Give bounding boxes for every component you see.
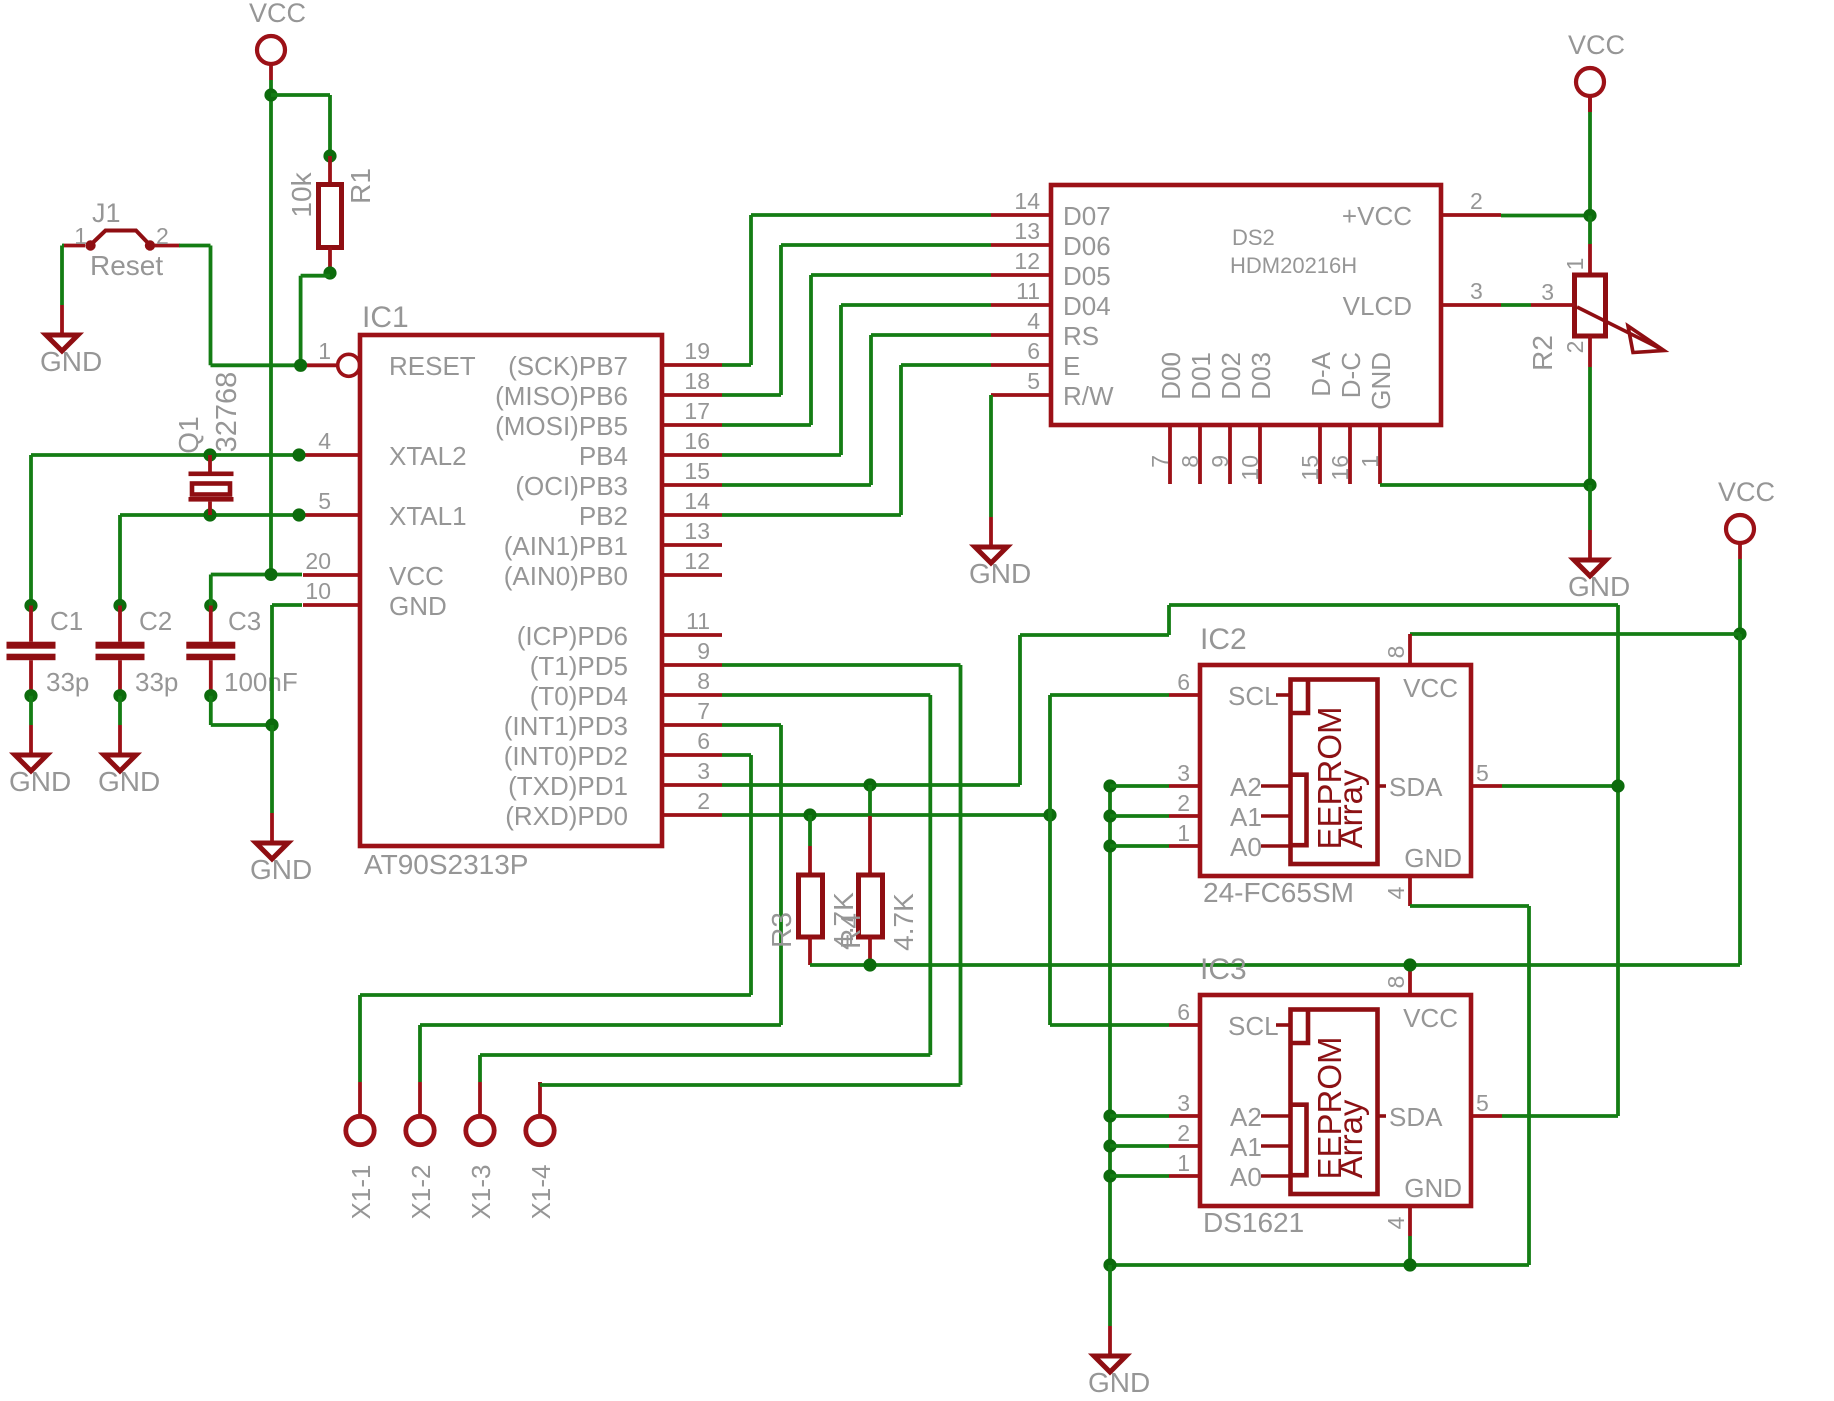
svg-text:D07: D07	[1063, 201, 1111, 231]
wire J1 pin2 to RESET node	[179, 246, 301, 366]
pin IC2.5 SDA	[1389, 760, 1502, 802]
junction dot R2 bottom/LCD gnd	[1583, 478, 1596, 491]
label IC3 value DS1621	[1203, 1207, 1304, 1238]
svg-text:2: 2	[1177, 1120, 1190, 1146]
svg-text:C2: C2	[139, 606, 172, 636]
svg-text:13: 13	[1014, 218, 1040, 244]
pin IC3.2 A1	[1169, 1120, 1262, 1162]
junction dot crystal top	[203, 448, 216, 461]
EEPROM array symbol (IC3)	[1261, 1010, 1386, 1195]
wire IC3 GND join	[1408, 1236, 1412, 1265]
jumper J1	[63, 198, 180, 281]
wire net X1-4 (T1/PD5)	[540, 665, 961, 1085]
power symbol VCC (top left)	[249, 0, 306, 80]
svg-text:GND: GND	[9, 766, 71, 797]
svg-text:5: 5	[1476, 760, 1489, 786]
pin IC1.13 (AIN1)PB1	[504, 518, 722, 561]
svg-text:9: 9	[697, 638, 710, 664]
wire to ground (R2)	[1588, 485, 1592, 530]
svg-text:(T1)PD5: (T1)PD5	[530, 651, 628, 681]
wire net X1-1 (INT0/PD2)	[360, 755, 751, 995]
junction dot A-bus y=786	[1103, 779, 1116, 792]
svg-text:6: 6	[697, 728, 710, 754]
svg-text:D03: D03	[1246, 352, 1276, 400]
svg-text:16: 16	[684, 428, 710, 454]
wire net D06 (IC1 to LCD)	[722, 245, 991, 395]
svg-text:9: 9	[1207, 455, 1233, 468]
svg-text:8: 8	[1383, 976, 1409, 989]
pin IC2.6 SCL	[1169, 669, 1279, 711]
svg-text:D02: D02	[1216, 352, 1246, 400]
label IC2 value 24-FC65SM	[1203, 877, 1354, 908]
wire XTAL2 net	[31, 455, 299, 606]
ground (R/W)	[969, 517, 1031, 589]
svg-text:7: 7	[1147, 455, 1173, 468]
svg-text:HDM20216H: HDM20216H	[1230, 253, 1357, 278]
svg-text:33p: 33p	[46, 667, 89, 697]
svg-text:(AIN1)PB1: (AIN1)PB1	[504, 531, 628, 561]
IC IC3 box	[1200, 995, 1471, 1206]
pin IC1.17 (MOSI)PB5	[495, 398, 722, 441]
ground (C1)	[9, 725, 71, 797]
svg-text:2: 2	[697, 788, 710, 814]
wire ground rail to GND symbol	[1108, 1265, 1112, 1326]
svg-text:D06: D06	[1063, 231, 1111, 261]
svg-text:Q1: Q1	[173, 416, 204, 453]
pad X1-3	[466, 1055, 496, 1219]
wire VCC rail (pull-ups, IC VCC)	[810, 963, 1740, 967]
ground (C2)	[98, 725, 160, 797]
svg-text:GND: GND	[1088, 1367, 1150, 1398]
svg-text:24-FC65SM: 24-FC65SM	[1203, 877, 1354, 908]
svg-text:AT90S2313P: AT90S2313P	[364, 849, 529, 880]
svg-text:VCC: VCC	[249, 0, 306, 28]
junction dot A-bus y=1176	[1103, 1169, 1116, 1182]
junction dot VCC at IC3 pin8	[1403, 958, 1416, 971]
svg-text:10: 10	[305, 578, 331, 604]
junction dot at IC1 pin 4	[292, 448, 305, 461]
pin IC3.3 A2	[1169, 1090, 1262, 1132]
svg-text:SDA: SDA	[1389, 1102, 1443, 1132]
svg-text:RS: RS	[1063, 321, 1099, 351]
svg-text:J1: J1	[92, 198, 121, 228]
pin DS2.3 VLCD	[1343, 278, 1501, 321]
junction dot VCC/R1 branch	[264, 88, 277, 101]
pin IC1.8 (T0)PD4	[530, 668, 722, 711]
svg-text:(SCK)PB7: (SCK)PB7	[508, 351, 628, 381]
pin DS2.7 D00	[1147, 352, 1186, 484]
wire XTAL1 net	[120, 515, 299, 606]
svg-text:8: 8	[697, 668, 710, 694]
svg-text:14: 14	[684, 488, 710, 514]
svg-text:SCL: SCL	[1228, 681, 1279, 711]
svg-text:7: 7	[697, 698, 710, 724]
svg-text:X1-2: X1-2	[406, 1165, 436, 1220]
svg-text:2: 2	[1562, 341, 1588, 354]
svg-text:GND: GND	[1366, 352, 1396, 410]
svg-text:Array: Array	[1332, 769, 1369, 848]
pin IC1.10 GND	[303, 578, 447, 621]
pin DS2.15 D-A	[1297, 351, 1336, 484]
svg-text:5: 5	[1027, 368, 1040, 394]
pin IC2.2 A1	[1169, 790, 1262, 832]
pad X1-1	[346, 995, 376, 1219]
junction dot A-bus y=1146	[1103, 1139, 1116, 1152]
svg-text:14: 14	[1014, 188, 1040, 214]
wire A-pin branch y=816	[1110, 814, 1169, 818]
svg-text:3: 3	[1541, 279, 1554, 305]
svg-text:1: 1	[1357, 455, 1383, 468]
svg-text:(TXD)PD1: (TXD)PD1	[508, 771, 628, 801]
svg-text:GND: GND	[40, 346, 102, 377]
junction dot VCC / pin20 / C3	[265, 568, 278, 581]
resistor R3 4.7K	[766, 815, 859, 965]
wire R1 bottom to RESET node	[301, 276, 330, 366]
svg-text:2: 2	[1177, 790, 1190, 816]
svg-text:3: 3	[697, 758, 710, 784]
svg-text:20: 20	[305, 548, 331, 574]
wire C2 to ground	[118, 696, 122, 725]
wire SCL to IC3	[1050, 1023, 1169, 1027]
svg-text:2: 2	[156, 223, 169, 249]
svg-text:VCC: VCC	[1568, 30, 1625, 60]
svg-text:DS1621: DS1621	[1203, 1207, 1304, 1238]
pin IC1.2 (RXD)PD0	[505, 788, 722, 831]
junction dot crystal bottom	[203, 508, 216, 521]
svg-text:(OCI)PB3: (OCI)PB3	[515, 471, 628, 501]
svg-text:VLCD: VLCD	[1343, 291, 1412, 321]
pin IC1.18 (MISO)PB6	[495, 368, 722, 411]
svg-text:R4: R4	[835, 913, 866, 949]
pin IC1.11 (ICP)PD6	[517, 608, 722, 651]
svg-text:R1: R1	[345, 168, 376, 204]
svg-text:VCC: VCC	[389, 561, 444, 591]
IC IC2 box	[1200, 665, 1471, 876]
wire VCC3 down	[1738, 559, 1742, 634]
svg-text:4: 4	[318, 428, 331, 454]
pin DS2.2 +VCC	[1342, 188, 1501, 231]
wire VLCD net	[1501, 303, 1575, 307]
svg-text:13: 13	[684, 518, 710, 544]
pin IC1.6 (INT0)PD2	[504, 728, 722, 771]
junction dot R4 top	[863, 778, 876, 791]
pin IC1.9 (T1)PD5	[530, 638, 722, 681]
svg-text:C1: C1	[50, 606, 83, 636]
pin IC1.14 PB2	[579, 488, 722, 531]
pin IC2.1 A0	[1169, 820, 1262, 862]
pin IC1.4 XTAL2	[303, 428, 467, 471]
junction dot R1 bottom	[323, 266, 336, 279]
wire C3 top to VCC rail	[211, 575, 302, 606]
svg-text:10k: 10k	[286, 171, 317, 217]
pin IC1.12 (AIN0)PB0	[504, 548, 722, 591]
pin IC1.19 (SCK)PB7	[508, 338, 722, 381]
label IC1 value AT90S2313P	[364, 849, 529, 880]
svg-text:VCC: VCC	[1718, 477, 1775, 507]
svg-text:D-A: D-A	[1306, 351, 1336, 396]
svg-text:100nF: 100nF	[224, 667, 298, 697]
wire A-pin branch y=1176	[1110, 1174, 1169, 1178]
svg-text:6: 6	[1177, 669, 1190, 695]
wire net RS (IC1 to LCD)	[722, 335, 991, 485]
svg-text:3: 3	[1470, 278, 1483, 304]
junction dot ground rail left	[1103, 1258, 1116, 1271]
pin DS2.10 D03	[1237, 352, 1276, 484]
svg-text:Array: Array	[1332, 1099, 1369, 1178]
svg-text:4.7K: 4.7K	[888, 893, 919, 951]
svg-text:4: 4	[1383, 1216, 1409, 1229]
pin DS2.11 D04	[991, 278, 1111, 321]
wire IC2 SDA	[1502, 784, 1618, 788]
wire LCD GND pin1 to R2	[1380, 483, 1590, 487]
wire net E (IC1 to LCD)	[722, 365, 991, 515]
svg-text:GND: GND	[250, 854, 312, 885]
pad X1-2	[406, 1025, 436, 1219]
EEPROM array symbol (IC2)	[1261, 680, 1386, 865]
pin IC1.20 VCC	[303, 548, 444, 591]
svg-text:1: 1	[1177, 1150, 1190, 1176]
svg-text:GND: GND	[98, 766, 160, 797]
svg-text:IC2: IC2	[1200, 623, 1247, 656]
wire SCL vertical	[1048, 695, 1052, 1025]
pin IC3.1 A0	[1169, 1150, 1262, 1192]
svg-text:GND: GND	[389, 591, 447, 621]
svg-text:2: 2	[1470, 188, 1483, 214]
wire net X1-3 (T0/PD4)	[480, 695, 930, 1055]
pin DS2.16 D-C	[1327, 352, 1366, 484]
svg-text:(T0)PD4: (T0)PD4	[530, 681, 628, 711]
resistor R4 4.7K	[835, 785, 919, 965]
svg-text:PB2: PB2	[579, 501, 628, 531]
svg-text:+VCC: +VCC	[1342, 201, 1412, 231]
svg-text:4: 4	[1027, 308, 1040, 334]
svg-text:RESET: RESET	[389, 351, 476, 381]
junction dot C3/pin10 ground	[265, 718, 278, 731]
junction dot IC3 GND	[1403, 1258, 1416, 1271]
svg-text:(INT1)PD3: (INT1)PD3	[504, 711, 628, 741]
pin IC3.5 SDA	[1389, 1090, 1502, 1132]
wire VCC3 to rail	[1738, 634, 1742, 965]
pin DS2.5 R/W	[991, 368, 1114, 411]
capacitor C2	[96, 599, 179, 702]
capacitor C1	[7, 599, 90, 702]
label DS2 name	[1232, 225, 1275, 250]
label IC1 name	[362, 301, 409, 334]
pin IC1.5 XTAL1	[303, 488, 467, 531]
pin IC1.7 (INT1)PD3	[504, 698, 722, 741]
svg-text:11: 11	[1016, 278, 1040, 304]
wire net X1-2 (INT1/PD3)	[420, 725, 781, 1025]
pin IC3.8 VCC	[1383, 964, 1458, 1033]
svg-text:32768: 32768	[211, 372, 243, 453]
svg-text:A2: A2	[1230, 772, 1262, 802]
wire down to ground (C3)	[270, 725, 274, 813]
svg-text:A1: A1	[1230, 1132, 1262, 1162]
svg-text:XTAL1: XTAL1	[389, 501, 467, 531]
capacitor C3	[186, 599, 297, 702]
power symbol VCC (EEPROMs)	[1718, 477, 1775, 559]
wire net D04 (IC1 to LCD)	[722, 305, 991, 455]
svg-text:IC3: IC3	[1200, 953, 1247, 986]
svg-text:(MOSI)PB5: (MOSI)PB5	[495, 411, 628, 441]
junction dot VCC3 branch	[1733, 627, 1746, 640]
wire SCL to IC2	[1050, 693, 1169, 697]
svg-text:15: 15	[684, 458, 710, 484]
wire IC2 VCC net	[1410, 632, 1740, 636]
svg-text:IC1: IC1	[362, 301, 409, 334]
junction dot SDA at IC2	[1611, 779, 1624, 792]
wire IC1 pin10 GND net	[272, 605, 302, 725]
wire A-pin branch y=846	[1110, 844, 1169, 848]
wire R2 pin2 down	[1588, 367, 1592, 485]
svg-text:1: 1	[1562, 258, 1588, 271]
pin IC2.8 VCC	[1383, 634, 1458, 703]
svg-text:(INT0)PD2: (INT0)PD2	[504, 741, 628, 771]
junction dot A-bus y=816	[1103, 809, 1116, 822]
svg-text:GND: GND	[969, 558, 1031, 589]
wire VCC vertical rail x=271	[269, 80, 273, 575]
wire A-pin branch y=1146	[1110, 1144, 1169, 1148]
svg-text:A1: A1	[1230, 802, 1262, 832]
junction dot A-bus y=1116	[1103, 1109, 1116, 1122]
svg-text:6: 6	[1177, 999, 1190, 1025]
pin IC2.4 GND	[1383, 843, 1462, 906]
svg-text:(AIN0)PB0: (AIN0)PB0	[504, 561, 628, 591]
svg-text:A2: A2	[1230, 1102, 1262, 1132]
label IC3 name	[1200, 953, 1247, 986]
svg-text:5: 5	[318, 488, 331, 514]
pad X1-4	[526, 1082, 556, 1219]
svg-text:5: 5	[1476, 1090, 1489, 1116]
svg-text:8: 8	[1383, 646, 1409, 659]
svg-text:GND: GND	[1568, 571, 1630, 602]
svg-text:A0: A0	[1230, 1162, 1262, 1192]
svg-text:16: 16	[1327, 455, 1353, 481]
svg-text:19: 19	[684, 338, 710, 364]
svg-text:(RXD)PD0: (RXD)PD0	[505, 801, 628, 831]
junction dot R1 top	[323, 149, 336, 162]
svg-text:12: 12	[684, 548, 710, 574]
pin DS2.1 GND	[1357, 352, 1396, 484]
wire A-pin branch y=786	[1110, 784, 1169, 788]
junction dot R3 top	[803, 808, 816, 821]
svg-text:X1-3: X1-3	[466, 1165, 496, 1220]
svg-text:D05: D05	[1063, 261, 1111, 291]
pin IC1.16 PB4	[579, 428, 722, 471]
svg-text:3: 3	[1177, 1090, 1190, 1116]
wire IC3 SDA	[1502, 1114, 1618, 1118]
pin DS2.12 D05	[991, 248, 1111, 291]
svg-text:DS2: DS2	[1232, 225, 1275, 250]
junction dot A-bus y=846	[1103, 839, 1116, 852]
svg-text:C3: C3	[228, 606, 261, 636]
svg-text:(ICP)PD6: (ICP)PD6	[517, 621, 628, 651]
ground (C3/IC1)	[250, 813, 312, 885]
junction dot R4 bottom	[863, 958, 876, 971]
svg-text:12: 12	[1014, 248, 1040, 274]
ground (J1)	[40, 305, 102, 377]
wire VCC to R1 top	[271, 95, 330, 156]
svg-text:17: 17	[684, 398, 710, 424]
wire net SCL (RXD/PD0)	[722, 813, 1050, 817]
svg-text:(MISO)PB6: (MISO)PB6	[495, 381, 628, 411]
svg-text:R2: R2	[1527, 335, 1558, 371]
svg-text:XTAL2: XTAL2	[389, 441, 467, 471]
svg-text:X1-1: X1-1	[346, 1165, 376, 1220]
svg-text:D-C: D-C	[1336, 352, 1366, 398]
junction dot node RESET at IC1 pin 1	[294, 359, 307, 372]
pin DS2.8 D01	[1177, 352, 1216, 484]
wire VCC2 down	[1588, 96, 1592, 216]
svg-text:R3: R3	[766, 912, 797, 948]
pin IC3.4 GND	[1383, 1173, 1462, 1236]
pin DS2.6 E	[991, 338, 1080, 381]
svg-text:VCC: VCC	[1403, 1003, 1458, 1033]
wire C1 to ground	[29, 696, 33, 725]
wire net D05 (IC1 to LCD)	[722, 275, 991, 425]
svg-text:D01: D01	[1186, 352, 1216, 400]
svg-text:11: 11	[686, 608, 710, 634]
svg-text:E: E	[1063, 351, 1080, 381]
svg-text:15: 15	[1297, 455, 1323, 481]
svg-text:Reset: Reset	[90, 250, 163, 281]
wire IC2 GND to rail	[1110, 906, 1529, 1265]
wire J1 pin1 to ground	[62, 246, 64, 306]
svg-text:4: 4	[1383, 886, 1409, 899]
svg-text:D04: D04	[1063, 291, 1111, 321]
svg-text:GND: GND	[1404, 843, 1462, 873]
svg-text:6: 6	[1027, 338, 1040, 364]
wire +VCC net	[1501, 214, 1590, 218]
svg-text:33p: 33p	[135, 667, 178, 697]
svg-text:GND: GND	[1404, 1173, 1462, 1203]
svg-text:18: 18	[684, 368, 710, 394]
pin IC3.6 SCL	[1169, 999, 1279, 1041]
ground (R2)	[1568, 530, 1630, 602]
svg-text:R/W: R/W	[1063, 381, 1114, 411]
svg-text:8: 8	[1177, 455, 1203, 468]
svg-text:1: 1	[1177, 820, 1190, 846]
pin DS2.9 D02	[1207, 352, 1246, 484]
svg-text:1: 1	[74, 223, 87, 249]
resistor R1 10k	[286, 156, 376, 273]
wire net SDA (TXD/PD1)	[722, 605, 1618, 1116]
wire R/W to ground	[989, 395, 993, 517]
pin IC1.15 (OCI)PB3	[515, 458, 722, 501]
wire A-pins ground bus	[1108, 786, 1112, 1265]
svg-text:PB4: PB4	[579, 441, 628, 471]
svg-text:3: 3	[1177, 760, 1190, 786]
junction dot SCL branch	[1043, 808, 1056, 821]
svg-text:A0: A0	[1230, 832, 1262, 862]
power symbol VCC (LCD)	[1568, 30, 1625, 112]
wire C3 bottom join	[211, 696, 272, 725]
pin DS2.13 D06	[991, 218, 1111, 261]
svg-text:SCL: SCL	[1228, 1011, 1279, 1041]
IC DS2 HDM20216H box	[1051, 185, 1441, 425]
svg-text:1: 1	[318, 338, 331, 364]
pin DS2.4 RS	[991, 308, 1099, 351]
wire R2 pin1	[1588, 216, 1592, 245]
pin IC1.1 RESET (bubble)	[307, 338, 476, 381]
pin IC1.3 (TXD)PD1	[508, 758, 722, 801]
junction dot +VCC/R2	[1583, 209, 1596, 222]
crystal Q1 32768	[173, 372, 243, 515]
ground (EEPROMs)	[1088, 1326, 1150, 1398]
label IC2 name	[1200, 623, 1247, 656]
wire net D07 (IC1 to LCD)	[722, 215, 991, 365]
pin DS2.14 D07	[991, 188, 1111, 231]
